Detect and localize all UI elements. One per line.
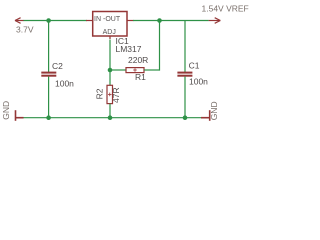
wire C1 lower: [184, 77, 186, 118]
svg-text:-OUT: -OUT: [103, 16, 121, 23]
wire R1 to riser: [144, 69, 160, 71]
svg-text:3.7V: 3.7V: [16, 25, 34, 35]
pin OUT stub: [127, 20, 134, 22]
svg-text:GND: GND: [209, 101, 219, 120]
svg-text:47R: 47R: [111, 87, 121, 103]
svg-text:1.54V VREF: 1.54V VREF: [202, 4, 249, 14]
wire C2 lower: [48, 77, 50, 118]
wire C1 upper: [184, 21, 186, 73]
pin IN stub: [86, 20, 93, 22]
capacitor C2: [41, 72, 56, 77]
wire top right: [133, 20, 209, 22]
svg-text:C2: C2: [52, 61, 63, 71]
op-amp U1 box (LM317 regulator IC1): [93, 12, 127, 37]
pin ADJ stub: [109, 36, 111, 39]
wire bottom: [24, 117, 202, 119]
svg-text:R2: R2: [94, 88, 104, 99]
svg-text:220R: 220R: [128, 55, 148, 65]
svg-text:LM317: LM317: [116, 44, 142, 54]
supply arrow 3.7V: [15, 18, 24, 24]
origin cross R1: [133, 68, 137, 72]
capacitor C1: [177, 72, 192, 77]
ground left symbol: [16, 110, 24, 121]
svg-text:R1: R1: [135, 72, 146, 82]
svg-text:ADJ: ADJ: [103, 29, 116, 36]
wire R2 lower: [109, 104, 111, 118]
junction dot top-mid: [157, 18, 162, 23]
arrow VREF: [209, 18, 221, 24]
wire top left: [24, 20, 88, 22]
svg-text:C1: C1: [189, 61, 200, 71]
origin cross R2: [108, 93, 112, 97]
wire riser to OUT net: [159, 21, 161, 71]
svg-text:IN: IN: [94, 16, 101, 23]
svg-text:100n: 100n: [55, 78, 74, 88]
wire ADJ to R1: [110, 69, 126, 71]
junction dot ADJ: [108, 68, 113, 73]
ground right symbol: [201, 110, 210, 121]
junction dot bottom R2: [108, 115, 113, 120]
resistor R2: [107, 85, 113, 103]
svg-text:100n: 100n: [189, 76, 208, 86]
junction dot bottom C1: [183, 115, 188, 120]
wire ADJ vertical: [109, 40, 111, 86]
junction dot bottom C2: [46, 115, 51, 120]
svg-text:GND: GND: [1, 101, 11, 120]
wire C2 upper: [48, 21, 50, 73]
resistor R1: [126, 68, 144, 73]
junction dot top-left: [46, 18, 51, 23]
